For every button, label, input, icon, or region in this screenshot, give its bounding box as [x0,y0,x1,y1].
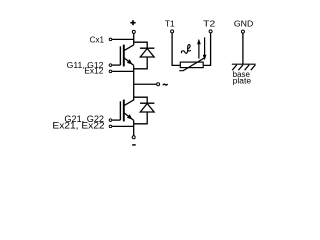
thermistor diagonal stroke [179,58,204,70]
terminal G11,G12 [109,64,112,67]
emitter lead [124,113,134,121]
label - (DC minus) [132,144,136,146]
thermistor NTC body [180,62,203,68]
diode D1 (antiparallel, top) [134,42,155,69]
D1 cathode bar [140,47,154,49]
body bar [123,45,125,67]
wire gate top IGBT [112,64,120,66]
label + (DC plus) [130,20,135,25]
arrow down (temperature) [203,37,207,60]
D1 triangle [140,49,154,58]
terminal - [132,136,135,139]
svg-text:Ex21, Ex22: Ex21, Ex22 [52,121,104,131]
arrow up (R increase) [197,39,201,59]
wire Ex21,Ex22 to emitter bus [112,125,134,127]
terminal Ex21,Ex22 [109,125,112,128]
svg-text:Cx1: Cx1 [90,35,105,45]
ground / base plate symbol [232,64,256,70]
wire GND to base plate [242,33,244,64]
gate bar [119,101,121,120]
terminal T1 [171,30,174,33]
terminal ~ [157,83,160,86]
emitter arrow [127,59,132,64]
D2 cathode bar [140,102,154,104]
gate bar [119,46,121,65]
collector lead [124,45,134,51]
terminal + [132,30,135,33]
emitter lead [124,58,134,66]
wire Ex12 to emitter bus [112,70,134,72]
body bar [123,100,125,122]
terminal Ex12 [109,70,112,73]
svg-text:T1: T1 [165,19,175,29]
IGBT top switch [120,45,133,67]
wire D2 anode to DC minus bus [134,112,148,124]
wire D1 anode to emitter bus [134,57,148,69]
wire DC minus bus (bottom) [133,120,135,135]
svg-text:plate: plate [233,76,251,85]
wire collector to D2 cathode [134,97,148,103]
wire T1 to thermistor [172,33,180,65]
terminal T2 [209,30,212,33]
terminal G21,G22 [109,119,112,122]
D2 triangle [140,104,154,113]
wire AC output [134,83,157,85]
emitter arrow [127,114,132,119]
terminal Cx1 [109,38,112,41]
diode D2 (antiparallel, bottom) [134,97,155,124]
collector lead [124,100,134,106]
wire Cx1 to collector node [112,38,134,40]
temperature symbol (theta) [181,45,190,54]
label ~ [163,84,168,85]
svg-text:Ex12: Ex12 [84,66,103,76]
wire T2 to thermistor [203,33,210,65]
wire collector bus (top) [133,33,135,45]
svg-text:T2: T2 [203,19,215,29]
wire gate bottom IGBT [112,119,120,121]
wire emitter bus / phase leg middle [133,65,135,100]
wire collector to D1 cathode [134,42,148,48]
IGBT bottom switch [120,100,133,122]
svg-text:GND: GND [234,19,253,29]
terminal GND [241,30,244,33]
